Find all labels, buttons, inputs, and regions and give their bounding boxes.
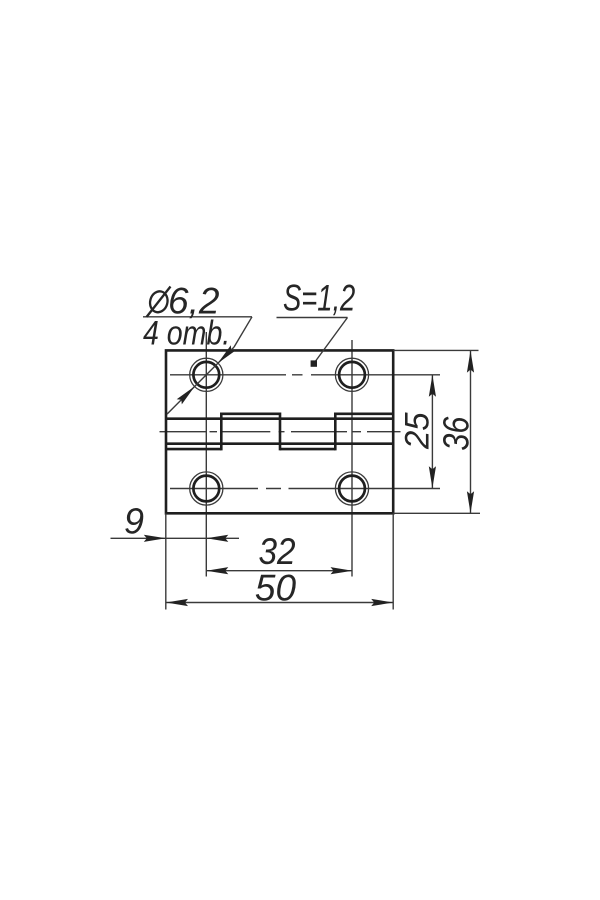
wire dim50 line [166,602,393,604]
svg-text:S=1,2: S=1,2 [283,278,355,319]
node right hole column axis [351,340,353,577]
svg-text:36: 36 [436,416,477,450]
wire plate outer rectangle [166,349,393,514]
node arrow dim36 top [467,351,474,373]
node pin axis [160,431,401,433]
node arrow dim25 top [429,375,436,397]
svg-text:9: 9 [124,501,144,542]
label diameter symbol [147,287,171,318]
wire dim9 line [111,537,240,539]
wire dim36 extension top [393,349,478,351]
node S leader dot [311,360,317,366]
wire dim50 extension right [392,513,394,609]
wire knuckle 1 raised outline [221,414,280,451]
wire dim32 line [206,570,352,572]
node top-hole axis row [170,374,440,376]
node bottom-hole axis row [170,488,440,490]
svg-text:4 omb.: 4 omb. [143,314,230,352]
node arrow dim36 bottom [467,491,474,513]
wire leader diagonal S [314,318,348,364]
node arrow dim32 left [206,567,228,574]
wire top leaf bottom edge / barrel top [166,417,393,420]
svg-text:50: 50 [255,568,297,609]
svg-text:25: 25 [399,412,437,450]
hole bottom-left countersink (outer) [190,472,223,505]
wire knuckle 2 raised outline [335,414,393,451]
hole top-left (inner) [193,362,219,388]
wire leader underline d6.2 [143,316,252,318]
wire barrel bottom [166,442,393,445]
wire leader underline S [277,317,348,319]
wire dim36 extension bottom [393,512,480,514]
wire dim50 extension left [165,513,167,609]
node arrow diameter upper-right [215,345,236,366]
hole bottom-right (inner) [339,476,365,502]
node arrow dim25 bottom [429,466,436,488]
hole bottom-left (inner) [193,476,219,502]
wire dim36 line [470,350,472,513]
node arrow dim50 right [371,599,393,606]
node left hole column axis [205,332,207,577]
hole bottom-right countersink (outer) [335,472,368,505]
node arrow dim50 left [166,599,188,606]
wire dim25 line [431,375,433,489]
svg-text:32: 32 [258,531,295,572]
node arrow dim32 right [331,567,353,574]
node arrow dim9 left outside [144,535,166,542]
hole top-left countersink (outer) [190,358,223,391]
node arrow dim9 right outside [206,535,228,542]
wire bottom leaf top edge segments [166,448,335,451]
wire diameter 45deg line [167,347,234,414]
node arrow diameter lower-left [177,384,198,405]
hole top-right (inner) [339,362,365,388]
hole top-right countersink (outer) [335,358,368,391]
wire leader kink d6.2 [234,317,252,347]
